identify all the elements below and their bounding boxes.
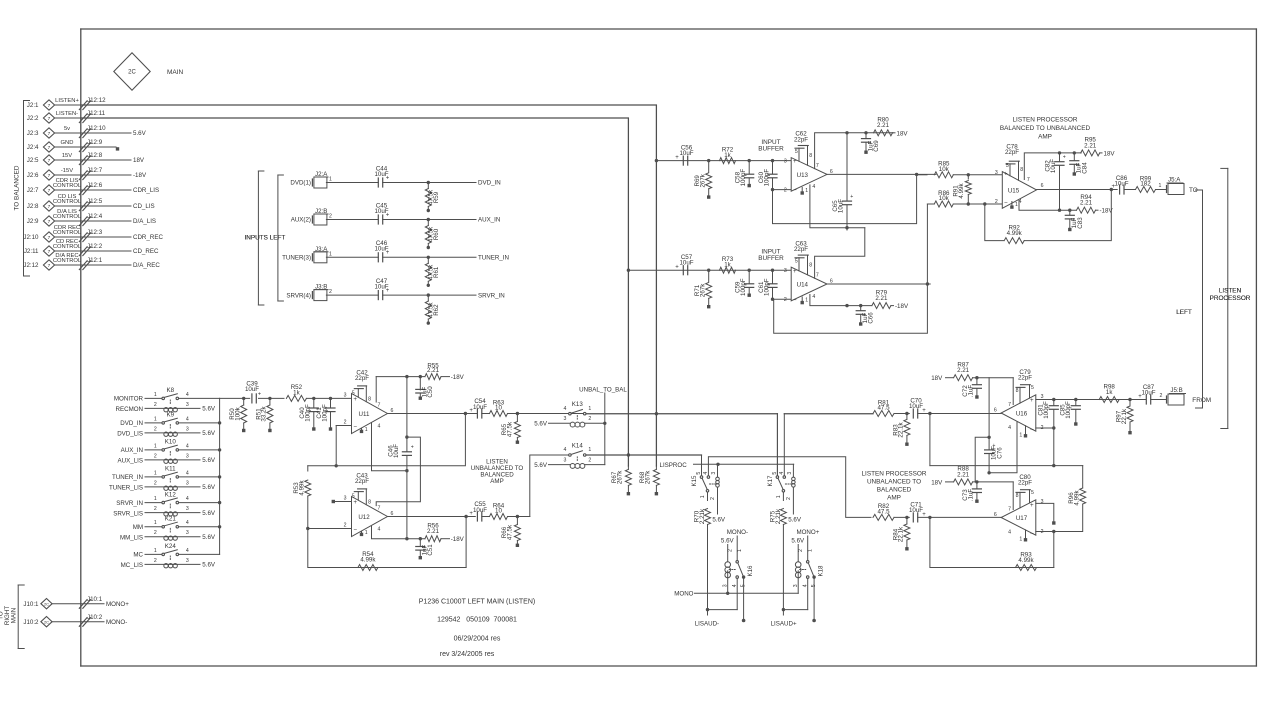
svg-text:C69: C69 [873,140,880,152]
svg-text:TUNER_IN: TUNER_IN [478,255,509,262]
svg-text:AUX_LIS: AUX_LIS [118,458,143,465]
svg-text:10: 10 [495,405,502,412]
svg-text:2.21k: 2.21k [699,508,706,524]
svg-text:2: 2 [154,530,157,536]
svg-text:J2:12: J2:12 [23,262,39,269]
svg-text:C50: C50 [427,386,434,398]
svg-text:7: 7 [48,263,51,269]
svg-text:4: 4 [1008,530,1011,536]
svg-text:8: 8 [1016,388,1019,394]
svg-text:1: 1 [329,251,332,257]
svg-text:J12:2: J12:2 [87,243,103,250]
svg-text:J10:1: J10:1 [87,596,103,603]
svg-text:3: 3 [723,584,729,587]
svg-text:15V: 15V [62,153,72,159]
svg-text:−: − [1030,427,1034,434]
svg-text:10uF: 10uF [909,403,923,410]
svg-text:+: + [1063,155,1066,161]
svg-text:LISTEN PROCESSOR: LISTEN PROCESSOR [862,470,927,477]
svg-text:U17: U17 [1016,515,1028,522]
svg-text:AMP: AMP [490,478,503,485]
svg-text:5v: 5v [64,126,70,132]
svg-text:5: 5 [795,259,798,265]
svg-text:06/29/2004 res: 06/29/2004 res [454,635,501,642]
svg-text:2: 2 [329,289,332,295]
svg-text:5.6V: 5.6V [712,517,726,524]
svg-text:10: 10 [495,508,502,515]
svg-text:+: + [469,511,473,517]
svg-text:J12:10: J12:10 [87,125,106,132]
svg-text:3: 3 [186,530,189,536]
svg-text:1: 1 [1019,433,1022,439]
svg-text:J2:11: J2:11 [24,248,39,255]
svg-text:RECMON: RECMON [116,406,144,413]
svg-text:INPUTS LEFT: INPUTS LEFT [244,234,285,241]
svg-text:5.6V: 5.6V [133,130,147,137]
svg-text:K15: K15 [691,475,698,487]
svg-text:18V: 18V [897,130,909,137]
svg-text:10uF: 10uF [679,150,693,157]
svg-text:TO BALANCED: TO BALANCED [14,165,21,210]
svg-text:1k: 1k [724,152,731,159]
svg-text:5.6V: 5.6V [202,484,216,491]
svg-text:7: 7 [378,506,381,512]
svg-text:5.6V: 5.6V [202,562,216,569]
svg-text:2: 2 [154,506,157,512]
svg-text:2.21: 2.21 [957,471,970,478]
svg-text:TUNER(3): TUNER(3) [282,255,311,262]
svg-text:2C: 2C [44,620,49,625]
svg-text:5.6V: 5.6V [202,534,216,541]
svg-text:1: 1 [808,549,814,552]
svg-text:2: 2 [154,453,157,459]
svg-text:5: 5 [1031,385,1034,391]
svg-text:267k: 267k [700,173,707,187]
svg-text:129542 050109 700081: 129542 050109 700081 [437,617,517,624]
svg-text:K10: K10 [165,439,177,446]
svg-text:2.21: 2.21 [427,528,440,535]
svg-text:22.1k: 22.1k [898,422,905,438]
svg-text:CDR_REC: CDR_REC [133,234,163,241]
svg-text:2: 2 [344,523,347,529]
svg-text:AUX_IN: AUX_IN [478,217,500,224]
svg-text:7: 7 [48,158,51,164]
svg-text:K17: K17 [767,475,774,487]
svg-text:22.1k: 22.1k [898,526,905,542]
svg-text:3: 3 [784,158,787,164]
svg-text:K24: K24 [165,543,177,550]
svg-text:1: 1 [154,496,157,502]
svg-text:−: − [793,297,797,304]
svg-text:10uF: 10uF [473,507,487,514]
svg-text:J12:3: J12:3 [87,229,103,236]
svg-text:J12:12: J12:12 [87,97,106,104]
svg-text:R59: R59 [433,191,440,203]
svg-text:7: 7 [48,173,51,179]
svg-text:1: 1 [154,416,157,422]
svg-text:22pF: 22pF [355,375,369,382]
svg-text:2: 2 [154,426,157,432]
svg-text:1: 1 [1019,537,1022,543]
svg-text:CONTROL: CONTROL [53,199,82,205]
svg-text:18V: 18V [931,375,943,382]
svg-text:CD_LIS: CD_LIS [133,203,155,210]
svg-text:J12:8: J12:8 [87,152,103,159]
svg-text:J2:4: J2:4 [27,144,39,151]
svg-text:100pF: 100pF [321,404,328,422]
svg-text:DVD(1): DVD(1) [290,180,311,187]
svg-text:7: 7 [48,235,51,241]
svg-text:10uF: 10uF [1114,181,1128,188]
svg-text:1k: 1k [293,390,300,397]
svg-text:J2:7: J2:7 [27,187,39,194]
svg-text:5: 5 [795,149,798,155]
svg-text:J2:1: J2:1 [27,102,39,109]
svg-text:+: + [1112,184,1116,190]
svg-text:4.99k: 4.99k [958,183,965,199]
svg-text:LISTEN PROCESSOR: LISTEN PROCESSOR [1013,117,1078,124]
svg-text:U11: U11 [359,411,370,418]
svg-text:LISAUD-: LISAUD- [695,621,719,628]
svg-text:3: 3 [344,393,347,399]
svg-text:2: 2 [784,297,787,303]
svg-text:10uF: 10uF [473,404,487,411]
svg-text:10k: 10k [939,166,950,173]
svg-text:1: 1 [776,495,782,498]
svg-text:AMP: AMP [1038,133,1052,140]
svg-text:2: 2 [784,188,787,194]
svg-text:6: 6 [391,511,394,517]
svg-text:FROM: FROM [1192,397,1211,404]
svg-text:100pF: 100pF [740,169,747,187]
svg-text:DVD_LIS: DVD_LIS [117,431,143,438]
svg-text:2: 2 [1160,393,1163,399]
svg-text:CONTROL: CONTROL [53,183,82,189]
svg-text:267k: 267k [700,283,707,297]
svg-text:C51: C51 [427,544,434,556]
svg-text:5.6V: 5.6V [534,421,548,428]
svg-text:J10:2: J10:2 [87,614,103,621]
svg-text:+: + [386,212,390,218]
svg-text:7: 7 [378,403,381,409]
svg-text:3: 3 [784,268,787,274]
svg-text:J10:2: J10:2 [23,619,39,626]
svg-text:−: − [793,187,797,194]
svg-text:4.99k: 4.99k [360,556,376,563]
svg-text:CONTROL: CONTROL [53,244,82,250]
svg-text:7: 7 [816,163,819,169]
svg-text:4: 4 [186,520,189,526]
svg-text:U12: U12 [358,514,370,521]
svg-text:3: 3 [564,457,567,463]
svg-text:18V: 18V [931,479,943,486]
svg-text:3: 3 [186,426,189,432]
svg-text:+: + [675,265,679,271]
svg-text:AMP: AMP [887,494,901,501]
svg-text:4: 4 [1008,425,1011,431]
svg-text:7: 7 [816,273,819,279]
svg-text:.1uF: .1uF [967,385,974,398]
svg-text:1: 1 [154,443,157,449]
svg-text:AUX_IN: AUX_IN [121,447,143,454]
svg-text:2.21: 2.21 [1080,200,1093,207]
svg-text:1: 1 [805,188,808,194]
svg-text:10uF: 10uF [679,260,693,267]
svg-text:4: 4 [812,294,815,300]
svg-text:UNBAL_TO_BAL: UNBAL_TO_BAL [579,386,627,393]
svg-text:8: 8 [1020,167,1023,173]
svg-text:47.5k: 47.5k [506,421,513,437]
svg-text:SRVR_IN: SRVR_IN [116,500,143,507]
svg-text:267k: 267k [645,470,652,484]
svg-text:MONO-: MONO- [106,619,127,626]
svg-text:MONO: MONO [674,591,693,598]
svg-text:GND: GND [61,140,74,146]
svg-text:2.21k: 2.21k [775,508,782,524]
svg-text:AUX(2): AUX(2) [291,217,311,224]
svg-text:D/A_REC: D/A_REC [133,262,160,269]
svg-text:LISTEN+: LISTEN+ [55,98,79,104]
svg-text:47.5: 47.5 [877,509,890,516]
svg-text:UNBALANCED TO: UNBALANCED TO [867,478,921,485]
svg-text:22pF: 22pF [1018,480,1032,487]
svg-text:+: + [353,396,357,403]
svg-text:2: 2 [798,549,804,552]
svg-text:U16: U16 [1016,411,1028,418]
svg-text:5.6V: 5.6V [202,457,216,464]
svg-text:U13: U13 [797,172,809,179]
svg-text:−: − [1030,531,1034,538]
svg-text:1: 1 [154,520,157,526]
svg-text:100k: 100k [235,406,242,420]
svg-text:1: 1 [154,392,157,398]
svg-text:CONTROL: CONTROL [53,258,82,264]
svg-text:1: 1 [1159,183,1162,189]
svg-text:2: 2 [154,402,157,408]
svg-text:J2:6: J2:6 [27,172,39,179]
svg-text:2: 2 [329,214,332,220]
svg-text:4.99k: 4.99k [1018,557,1034,564]
svg-text:8: 8 [368,397,371,403]
svg-text:100pF: 100pF [1043,401,1050,419]
svg-text:CD_REC: CD_REC [133,248,159,255]
svg-text:22pF: 22pF [1005,149,1019,156]
svg-text:1: 1 [365,530,368,536]
svg-text:1: 1 [737,549,743,552]
svg-text:1: 1 [1015,202,1018,208]
svg-text:K13: K13 [572,401,584,408]
svg-text:J10:1: J10:1 [23,601,39,608]
svg-text:+: + [353,499,357,506]
svg-text:6: 6 [1041,183,1044,189]
svg-text:1: 1 [805,297,808,303]
svg-text:+: + [411,444,414,450]
svg-text:U15: U15 [1008,188,1020,195]
svg-text:+: + [675,155,679,161]
svg-text:2: 2 [728,549,734,552]
svg-text:MAIN: MAIN [11,608,18,623]
svg-text:1: 1 [588,447,591,453]
svg-text:4: 4 [564,447,567,453]
svg-text:+: + [386,175,390,181]
svg-text:BALANCED: BALANCED [877,486,912,493]
svg-text:BALANCED TO UNBALANCED: BALANCED TO UNBALANCED [1000,125,1091,132]
svg-text:K16: K16 [747,565,754,577]
svg-text:MAIN: MAIN [167,69,184,76]
svg-text:2: 2 [588,457,591,463]
svg-text:6: 6 [391,408,394,414]
svg-text:+: + [793,158,797,165]
svg-text:−: − [353,423,357,430]
svg-text:2C: 2C [44,602,49,607]
svg-text:+: + [1138,394,1142,400]
svg-text:K11: K11 [165,466,176,473]
svg-text:−: − [1004,199,1008,206]
svg-text:J12:5: J12:5 [87,198,103,205]
svg-text:3: 3 [344,496,347,502]
svg-text:2: 2 [344,420,347,426]
svg-text:K12: K12 [165,491,177,498]
svg-text:TUNER_IN: TUNER_IN [112,474,143,481]
svg-text:33.2k: 33.2k [261,406,268,422]
svg-text:8: 8 [809,153,812,159]
svg-text:C83: C83 [1077,217,1084,229]
svg-text:MONITOR: MONITOR [114,396,144,403]
svg-text:1: 1 [329,177,332,183]
svg-text:CONTROL: CONTROL [53,230,82,236]
svg-text:2.21: 2.21 [877,122,890,129]
svg-text:8: 8 [1016,493,1019,499]
svg-text:100pF: 100pF [763,278,770,296]
svg-text:267k: 267k [617,470,624,484]
svg-text:−: − [353,526,357,533]
svg-text:+: + [1030,502,1034,509]
svg-text:3: 3 [1041,499,1044,505]
svg-text:4: 4 [186,496,189,502]
svg-text:CONTROL: CONTROL [53,214,82,220]
svg-text:7: 7 [48,103,51,109]
svg-text:10k: 10k [939,195,950,202]
svg-text:100pF: 100pF [763,169,770,187]
svg-text:K8: K8 [167,387,175,394]
svg-text:47.5: 47.5 [877,405,890,412]
svg-text:5.6V: 5.6V [202,430,216,437]
svg-text:MC_LIS: MC_LIS [121,562,143,569]
svg-text:+: + [469,408,473,414]
svg-text:6: 6 [994,512,997,518]
svg-text:3: 3 [793,584,799,587]
svg-text:BUFFER: BUFFER [758,255,784,262]
svg-text:47.5k: 47.5k [506,524,513,540]
svg-text:-18V: -18V [451,374,465,381]
svg-text:PROCESSOR: PROCESSOR [1210,295,1251,302]
svg-text:MONO+: MONO+ [796,529,819,536]
svg-text:SRVR(4): SRVR(4) [286,292,311,299]
svg-text:BUFFER: BUFFER [758,145,784,152]
svg-text:J12:7: J12:7 [87,167,103,174]
svg-text:5.6V: 5.6V [202,510,216,517]
svg-text:LEFT: LEFT [1176,309,1192,316]
svg-text:1k: 1k [724,261,731,268]
svg-text:3: 3 [186,480,189,486]
svg-text:J2:8: J2:8 [27,203,39,210]
svg-text:C76: C76 [996,447,1003,459]
svg-text:K21: K21 [165,516,177,523]
svg-text:8: 8 [809,263,812,269]
svg-text:100pF: 100pF [1065,401,1072,419]
svg-text:J2:9: J2:9 [27,218,39,225]
svg-text:2: 2 [588,416,591,422]
svg-text:-18V: -18V [895,303,909,310]
svg-text:22pF: 22pF [1018,375,1032,382]
svg-text:8: 8 [368,500,371,506]
svg-text:4: 4 [186,470,189,476]
svg-text:4: 4 [186,443,189,449]
svg-text:1: 1 [154,470,157,476]
svg-text:K18: K18 [818,565,825,577]
svg-text:2.21: 2.21 [427,367,440,374]
svg-text:TUNER_LIS: TUNER_LIS [109,485,143,492]
svg-text:J2:3: J2:3 [27,130,39,137]
svg-text:7: 7 [1008,402,1011,408]
svg-text:3: 3 [787,472,793,475]
svg-text:J2:2: J2:2 [27,115,39,122]
svg-text:DVD_IN: DVD_IN [478,180,501,187]
svg-text:4: 4 [378,527,381,533]
svg-text:rev 3/24/2005 res: rev 3/24/2005 res [440,651,495,658]
svg-text:10uF: 10uF [838,199,845,213]
svg-text:SRVR_LIS: SRVR_LIS [113,510,143,517]
svg-text:7: 7 [1027,177,1030,183]
svg-text:LISAUD+: LISAUD+ [771,621,797,628]
svg-text:+: + [1004,170,1008,177]
svg-text:100pF: 100pF [740,278,747,296]
svg-text:-18V: -18V [451,536,465,543]
svg-text:MM: MM [133,524,143,531]
svg-text:SRVR_IN: SRVR_IN [478,292,505,299]
svg-text:4: 4 [186,392,189,398]
svg-text:J12:6: J12:6 [87,182,103,189]
svg-text:2: 2 [154,480,157,486]
svg-text:5: 5 [1006,163,1009,169]
svg-text:-15V: -15V [61,168,73,174]
svg-text:3: 3 [186,558,189,564]
svg-text:LISTEN-: LISTEN- [56,111,78,117]
svg-text:1: 1 [700,495,706,498]
svg-text:2: 2 [710,497,716,500]
svg-text:MC: MC [133,552,143,559]
svg-text:K9: K9 [167,412,175,419]
svg-text:4: 4 [812,184,815,190]
svg-text:4: 4 [564,406,567,412]
svg-text:J2:5: J2:5 [27,157,39,164]
svg-text:U14: U14 [797,282,809,289]
svg-text:182: 182 [1140,181,1151,188]
svg-text:22pF: 22pF [355,478,369,485]
svg-text:5: 5 [1031,490,1034,496]
svg-text:+: + [386,288,390,294]
svg-text:2: 2 [786,497,792,500]
svg-text:K14: K14 [572,443,584,450]
svg-text:10uF: 10uF [1050,159,1057,173]
svg-text:18V: 18V [133,157,145,164]
svg-text:R61: R61 [433,266,440,278]
svg-text:4: 4 [186,416,189,422]
svg-text:D/A_LIS: D/A_LIS [133,218,156,225]
svg-text:5.6V: 5.6V [202,406,216,413]
svg-text:7: 7 [48,188,51,194]
svg-text:LISPROC: LISPROC [660,462,688,469]
